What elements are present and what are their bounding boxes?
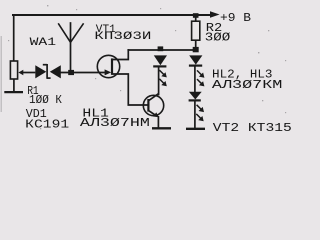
resistor R1 (variable)	[10, 61, 17, 79]
junction node right (R2/HL2 branch)	[193, 47, 199, 52]
wiper arrow of R1	[18, 70, 23, 75]
emitter lead VT2 with arrow	[148, 110, 156, 116]
ground under R1	[4, 91, 23, 93]
resistor R2	[192, 21, 200, 40]
node junction gate/antenna	[68, 70, 74, 75]
antenna WA1 arms	[58, 23, 83, 42]
svg-text:3ØØ: 3ØØ	[205, 30, 231, 44]
junction node left (HL1 branch)	[158, 46, 164, 51]
collector lead VT2	[148, 94, 158, 101]
junction R2 top on rail	[193, 13, 199, 18]
wire R1 bottom to ground	[13, 79, 15, 91]
wire R2 top	[195, 15, 197, 22]
svg-text:АЛ3Ø7КМ: АЛ3Ø7КМ	[212, 78, 283, 92]
transistor VT1 (JFET)	[97, 55, 119, 77]
ground right branch	[186, 128, 205, 130]
wire VT1 drain to node	[112, 50, 128, 60]
svg-text:WA1: WA1	[30, 37, 57, 49]
svg-text:VT2 КТ315: VT2 КТ315	[213, 121, 292, 135]
wire left rail	[13, 15, 15, 61]
ground under VT2	[152, 127, 171, 129]
svg-text:АЛ3Ø7НМ: АЛ3Ø7НМ	[80, 116, 150, 130]
wire antenna mast	[70, 23, 72, 73]
svg-text:КП3Ø3И: КП3Ø3И	[94, 31, 151, 43]
arrow +9V supply	[210, 11, 220, 17]
wire VD1 to VT1 gate	[61, 72, 104, 74]
wire +9V top rail	[13, 14, 210, 16]
wire R1 wiper to VD1	[21, 72, 35, 74]
wire R2 bottom to node	[195, 41, 197, 50]
LED HL1	[154, 55, 167, 65]
wire HL1 cathode to VT2 collector	[158, 67, 160, 95]
transistor VT2 (NPN)	[143, 95, 163, 115]
wire VT2 emitter to ground	[157, 117, 159, 128]
wire HL2 to HL3	[194, 66, 196, 93]
LED HL3	[189, 92, 202, 100]
svg-text:КС191: КС191	[25, 119, 69, 132]
LED HL2	[189, 55, 202, 64]
svg-text:+9 В: +9 В	[220, 11, 251, 25]
wire node horizontal	[128, 49, 195, 51]
zener VD1 (two-anode)	[35, 65, 61, 78]
scan noise speckles	[8, 5, 286, 129]
svg-text:1ØØ К: 1ØØ К	[29, 94, 62, 107]
scan artifact left edge	[0, 36, 2, 112]
wire HL3 to ground	[194, 101, 196, 128]
wire VT1 source to VT2 base	[112, 74, 148, 105]
